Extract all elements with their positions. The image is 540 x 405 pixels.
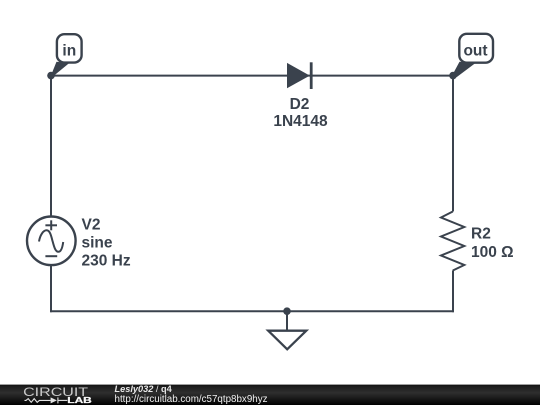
wire left vertical lower	[50, 265, 52, 312]
svg-text:in: in	[62, 42, 76, 59]
svg-text:230 Hz: 230 Hz	[82, 253, 131, 270]
svg-text:100 Ω: 100 Ω	[471, 244, 514, 261]
wire bottom horizontal	[50, 310, 454, 312]
node in junction dot	[47, 72, 55, 80]
node ground junction dot	[283, 307, 291, 315]
wire top horizontal	[51, 75, 453, 77]
svg-text:sine: sine	[82, 234, 113, 251]
wire left vertical upper	[50, 76, 52, 217]
svg-text:Lesly032 / q4: Lesly032 / q4	[115, 384, 173, 394]
svg-text:R2: R2	[471, 226, 491, 243]
diode D2	[287, 62, 311, 89]
footer bar	[0, 385, 540, 405]
resistor R2	[441, 212, 464, 271]
node in label	[51, 34, 82, 77]
ground	[268, 311, 306, 349]
svg-text:D2: D2	[290, 96, 310, 113]
svg-text:out: out	[463, 42, 487, 59]
voltage source V2	[27, 217, 76, 266]
wire right vertical lower	[452, 271, 454, 313]
node out junction dot	[449, 72, 457, 80]
svg-text:http://circuitlab.com/c57qtp8b: http://circuitlab.com/c57qtp8bx9hyz	[115, 394, 268, 405]
svg-text:V2: V2	[82, 216, 101, 233]
node out label	[453, 34, 494, 78]
logo wire squiggle	[25, 397, 68, 403]
wire right vertical upper	[452, 76, 454, 212]
svg-text:LAB: LAB	[67, 395, 92, 405]
svg-text:1N4148: 1N4148	[273, 113, 328, 130]
